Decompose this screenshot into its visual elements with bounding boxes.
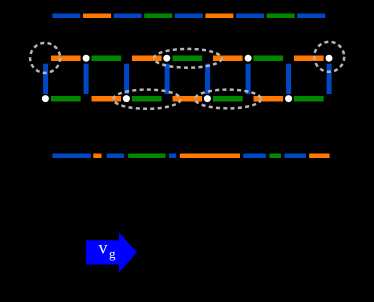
top rail green bond 1 [92,56,122,62]
bond t blue 5 [297,14,325,19]
bottom rail green bond 3 [213,96,243,102]
lower chain: modulated lattice row [52,154,329,159]
rung 7 [286,64,291,94]
top chain: uniform lattice row [52,14,325,19]
particle bottom site 3 [123,95,130,102]
mod bond green 2 [269,154,281,159]
top rail orange bond 1 [51,56,81,62]
bottom rail green bond 1 [51,96,81,102]
bond t blue 3 [175,14,203,19]
arrow body [86,233,137,273]
dashed circle right edge site [314,42,344,72]
bond green 1 [144,14,172,19]
dashed ellipse bottom dimer 1 [113,90,180,109]
top rail green bond 3 [254,56,284,62]
particle top site 6 [245,55,252,62]
bond orange 2 [205,14,233,19]
mod bond orange 3 [309,154,330,159]
bottom rail orange bond 3 [254,96,284,102]
pump velocity arrow vg [86,233,137,273]
rung 5 [205,64,210,94]
particle top site 2 [83,55,90,62]
ladder: two-leg lattice [30,42,344,109]
top rail orange bond 2 [132,56,162,62]
mod bond blue 5 [284,154,306,159]
top rail orange bond 3 [213,56,243,62]
bottom rail orange bond 1 [92,96,122,102]
rung 2 [84,64,89,94]
top rail green bond 2 [173,56,203,62]
bond green 2 [267,14,295,19]
bond t blue 1 [52,14,80,19]
rung 6 [246,64,251,94]
mod bond blue 3 [169,154,176,159]
bottom rail green bond 2 [132,96,162,102]
mod bond blue 4 [243,154,266,159]
dashed ellipse bottom dimer 2 [195,90,261,109]
particle top site 4 [163,55,170,62]
rung 8 [327,64,332,94]
mod bond orange 2 [180,154,240,159]
bond orange 1 [83,14,111,19]
particle bottom site 7 [285,95,292,102]
bottom rail green bond 4 [294,96,324,102]
top rail orange bond 4 [294,56,324,62]
rung 3 [124,64,129,94]
bond t blue 2 [114,14,142,19]
dashed ellipse top dimer [154,49,222,68]
mod bond green 1 [128,154,165,159]
dashed circle left edge site [30,43,60,73]
svg-text:v: v [99,238,108,258]
rung 1 [43,64,48,94]
particle bottom site 1 [42,95,49,102]
mod bond blue 1 [52,154,91,159]
bottom rail orange bond 2 [173,96,203,102]
svg-text:g: g [109,246,116,261]
mod bond blue 2 [107,154,124,159]
mod bond orange 1 [93,154,101,159]
bond t blue 4 [236,14,264,19]
rung 4 [165,64,170,94]
particle bottom site 5 [204,95,211,102]
particle top site 8 [326,55,333,62]
